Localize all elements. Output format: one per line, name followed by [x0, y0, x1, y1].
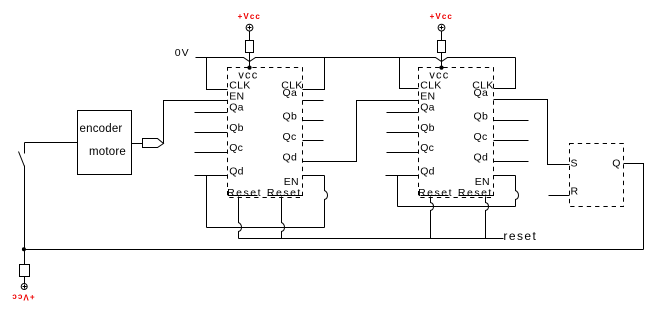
U1 unconnected output stub (right col) y=120.4	[303, 120, 324, 122]
svg-text:Q: Q	[612, 157, 620, 169]
wire tag to U1 EN-left	[164, 101, 228, 144]
svg-text:Qa: Qa	[229, 102, 244, 114]
svg-text:Qb: Qb	[229, 122, 244, 134]
svg-text:Qc: Qc	[283, 131, 297, 143]
resistor RV1	[246, 41, 254, 53]
encoder block (motor encoder)	[78, 111, 132, 175]
wire U2 Reset2 drop to reset net (hop over bus)	[486, 197, 489, 239]
svg-text:+Vcc: +Vcc	[11, 292, 34, 301]
wire switch to encoder input	[25, 142, 78, 144]
svg-text:Qa: Qa	[283, 87, 298, 99]
wire U1 EN-right drop with crossing hop	[325, 176, 328, 228]
U1 Qd (left col) pin wire	[195, 175, 228, 177]
wire U2 Qd-left down to EN-right bus	[397, 176, 399, 207]
U1 unconnected output stub (right col) y=141.0	[303, 140, 324, 142]
wire U1 Qd-left down to EN-right bus	[206, 176, 208, 228]
switch SW1 (open)	[24, 143, 26, 154]
wire U2 EN-right drop with crossing hop	[516, 176, 519, 207]
svg-text:EN: EN	[475, 176, 490, 188]
svg-text:Qa: Qa	[420, 102, 435, 114]
U2 EN (right col) pin wire	[494, 175, 516, 177]
svg-text:Qc: Qc	[474, 131, 488, 143]
U2 unconnected output stub (left col) y=152.4	[387, 152, 419, 154]
power supply +Vcc V3 (rotated 180°)	[21, 284, 27, 290]
U1 unconnected output stub (left col) y=152.4	[195, 152, 228, 154]
svg-text:reset: reset	[503, 229, 537, 243]
svg-text:Qd: Qd	[474, 152, 489, 164]
svg-text:Reset: Reset	[227, 187, 262, 199]
wire U1 Qd->EN horizontal bus	[207, 227, 325, 229]
wire R input stub	[549, 195, 570, 197]
svg-text:Qd: Qd	[283, 152, 298, 164]
U2 unconnected output stub (right col) y=141.0	[494, 140, 529, 142]
U1 EN (right col) pin wire	[303, 175, 325, 177]
svg-text:0V: 0V	[175, 47, 190, 59]
wire U2 Qd->EN horizontal bus	[398, 206, 516, 208]
svg-text:Reset: Reset	[267, 187, 302, 199]
svg-text:Qc: Qc	[420, 142, 434, 154]
U2 Qd (left col) pin wire	[386, 175, 419, 177]
U2 unconnected output stub (right col) y=120.4	[494, 120, 529, 122]
wire U1 Qd-right cascade to U2 EN-left	[303, 101, 419, 162]
U1 unconnected output stub (right col) y=100.3	[303, 100, 324, 102]
wire U2 Reset1 drop to reset net (hop over bus)	[431, 197, 434, 239]
junction dot at vcc pin	[247, 66, 251, 70]
svg-text:R: R	[571, 186, 579, 198]
svg-text:Reset: Reset	[458, 187, 493, 199]
svg-text:Qd: Qd	[229, 165, 244, 177]
signal tag (pointer flag)	[143, 139, 164, 148]
svg-text:Reset: Reset	[418, 187, 453, 199]
svg-text:Qb: Qb	[283, 111, 298, 123]
svg-text:Qc: Qc	[229, 142, 243, 154]
wire V1 to resistor	[249, 31, 251, 41]
U2 unconnected output stub (left col) y=132.3	[387, 132, 419, 134]
U1 unconnected output stub (left col) y=132.3	[195, 132, 228, 134]
svg-text:EN: EN	[284, 176, 299, 188]
resistor R3 (bottom left)	[20, 265, 30, 277]
wire switch down to bottom rail	[24, 166, 26, 265]
junction dot switch/bottom rail	[22, 247, 26, 251]
wire encoder output to tag	[132, 143, 143, 145]
svg-text:S: S	[571, 157, 578, 169]
U1 unconnected output stub (left col) y=112.2	[195, 112, 228, 114]
svg-text:Qb: Qb	[420, 122, 435, 134]
wire bottom rail (switch to latch Q)	[24, 249, 644, 251]
wire U1 Reset2 drop to reset net (hop over bus)	[282, 197, 285, 239]
wire U2 CLK-left from 0V rail	[400, 58, 419, 89]
svg-text:+Vcc: +Vcc	[430, 12, 453, 21]
resistor RV2	[438, 41, 446, 53]
wire U1 CLK-right to 0V rail	[303, 58, 325, 90]
svg-text:+Vcc: +Vcc	[238, 12, 261, 21]
junction dot at vcc pin	[439, 66, 443, 70]
svg-text:encoder: encoder	[80, 123, 123, 135]
IC U2 dual counter (dashed body)	[419, 68, 494, 198]
wire U2 CLK-right to 0V rail (rail right end)	[494, 58, 516, 89]
wire 0V rail (with crossing dips at +Vcc branches)	[196, 58, 516, 62]
wire V2 to resistor	[441, 31, 443, 41]
wire resistor to vcc pin of chip	[249, 53, 251, 68]
svg-text:motore: motore	[89, 146, 126, 158]
IC U1 dual counter (dashed body)	[228, 68, 303, 198]
wire U1 Reset1 drop to reset net (hop over bus)	[239, 197, 242, 239]
wire U2 Qa-right to latch S input	[494, 100, 570, 165]
wire resistor to power symbol	[24, 277, 26, 284]
wire U3 Q output to bottom rail	[624, 164, 644, 250]
svg-text:Qa: Qa	[474, 87, 489, 99]
IC U3 SR latch (dashed body)	[570, 144, 624, 207]
svg-text:Qb: Qb	[474, 111, 489, 123]
wire reset net horizontal	[239, 238, 504, 240]
U2 unconnected output stub (right col) y=161.5	[494, 161, 529, 163]
svg-text:Qd: Qd	[420, 165, 435, 177]
wire U1 CLK-left from 0V rail	[207, 58, 228, 90]
wire resistor to vcc pin of chip	[441, 53, 443, 68]
U2 unconnected output stub (left col) y=112.2	[387, 112, 419, 114]
